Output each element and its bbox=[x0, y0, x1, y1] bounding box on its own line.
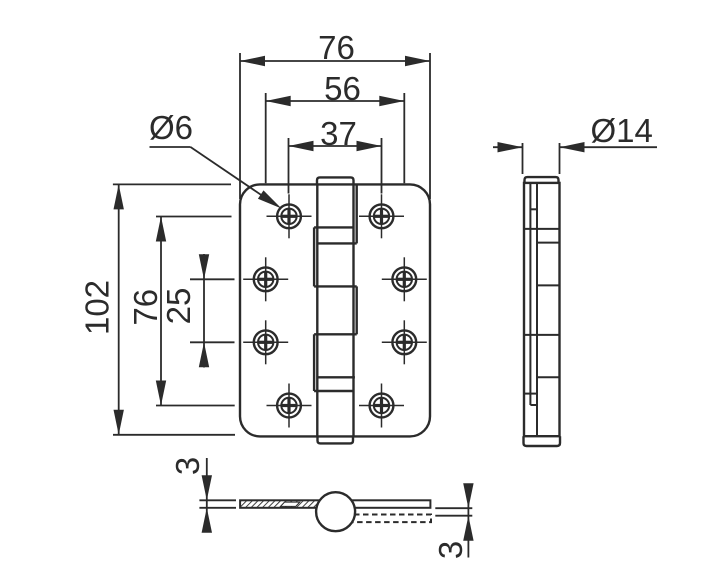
screw hole H3 (row2 left) bbox=[243, 257, 288, 301]
side view bottom cap bbox=[524, 436, 561, 446]
knuckle joint line 2 bbox=[317, 242, 356, 244]
dimension diameter 14 bbox=[493, 112, 657, 174]
barrel pin right edge bbox=[352, 184, 354, 436]
dimension 37 bbox=[289, 115, 382, 194]
knuckle edge right lower bbox=[356, 286, 358, 334]
svg-text:102: 102 bbox=[79, 280, 116, 335]
screw hole H5 (row3 left) bbox=[243, 320, 288, 364]
side view leaf edge line 2 bbox=[536, 183, 538, 436]
label diameter 6 with leader bbox=[149, 109, 282, 209]
dimension 76 top bbox=[240, 29, 430, 199]
svg-text:3: 3 bbox=[169, 457, 206, 475]
svg-text:Ø14: Ø14 bbox=[591, 112, 653, 149]
screw hole H7 (row4 left) bbox=[267, 384, 312, 428]
svg-text:76: 76 bbox=[318, 29, 355, 66]
svg-text:Ø6: Ø6 bbox=[149, 109, 193, 146]
svg-text:37: 37 bbox=[320, 115, 357, 152]
dimension 25 bbox=[160, 254, 235, 368]
bottom view right leaf (solid) bbox=[340, 500, 430, 508]
side view joint a bbox=[530, 208, 537, 210]
side view joint b bbox=[524, 228, 560, 230]
screw hole H4 (row2 right) bbox=[382, 257, 427, 301]
side view joint g bbox=[524, 393, 537, 395]
dimension 102 bbox=[79, 184, 236, 434]
knuckle joint line 4 bbox=[314, 333, 357, 335]
svg-text:56: 56 bbox=[324, 70, 361, 107]
side view leaf edge line 1 bbox=[529, 183, 531, 405]
side view top cap bbox=[525, 177, 559, 183]
barrel bottom cap bbox=[318, 436, 354, 443]
svg-text:76: 76 bbox=[127, 289, 164, 326]
dimension 3 right bbox=[432, 483, 474, 559]
svg-text:25: 25 bbox=[160, 288, 197, 325]
side view joint f bbox=[537, 376, 560, 378]
side view joint d bbox=[537, 284, 560, 286]
knuckle joint line 1 bbox=[314, 226, 353, 228]
side view body bbox=[524, 183, 560, 436]
side view joint e bbox=[524, 334, 560, 336]
dimension 3 left bbox=[169, 457, 236, 533]
screw hole H2 (row1 right) bbox=[359, 194, 404, 238]
barrel pin left edge bbox=[316, 184, 318, 436]
bottom view barrel circle bbox=[316, 492, 355, 531]
screw hole H6 (row3 right) bbox=[382, 320, 427, 364]
screw hole H1 (row1 left) bbox=[267, 194, 312, 238]
hinge plate (front view) bbox=[240, 184, 430, 436]
knuckle edge left lower bbox=[313, 334, 315, 391]
bottom view right leaf (dashed alternate position) bbox=[345, 515, 431, 523]
knuckle joint line 5 bbox=[317, 376, 355, 378]
bottom view left leaf (hatched) bbox=[240, 500, 322, 508]
knuckle edge left upper bbox=[313, 227, 315, 286]
dimension 56 bbox=[266, 70, 405, 183]
knuckle joint line 6 bbox=[314, 390, 353, 392]
side view joint c bbox=[537, 242, 560, 244]
svg-text:3: 3 bbox=[432, 541, 469, 559]
side view joint h bbox=[530, 404, 537, 406]
dimension 76 left bbox=[127, 217, 235, 406]
barrel top cap bbox=[317, 177, 354, 184]
screw hole H8 (row4 right) bbox=[359, 384, 404, 428]
knuckle joint line 3 bbox=[314, 285, 357, 287]
knuckle edge right upper bbox=[356, 184, 358, 243]
